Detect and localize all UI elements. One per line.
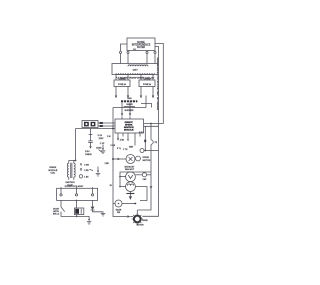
wire [144, 150, 158, 152]
wire A continues [138, 145, 152, 211]
svg-text:10: 10 [110, 185, 113, 187]
fuse F1 blob [144, 140, 146, 143]
arrow pin 4 [152, 96, 154, 99]
node [144, 150, 146, 152]
wire [92, 200, 94, 206]
node bus-riser [112, 128, 114, 130]
node [76, 216, 78, 218]
svg-text:3 1S: 3 1S [98, 135, 103, 137]
wire [113, 203, 115, 205]
svg-text:F2: F2 [155, 142, 158, 144]
wire [127, 75, 129, 81]
wire P3-2 down [152, 87, 154, 96]
burner coil W1 [124, 106, 135, 107]
control module U2 [115, 119, 144, 133]
wire L1 from U1 to right bus [144, 44, 164, 124]
wire inner bus down to motor [142, 126, 158, 216]
wire [61, 212, 77, 217]
wire [76, 215, 78, 217]
wire valve to D1 [121, 103, 123, 114]
wire valve to D2 [129, 103, 131, 114]
wire P2-1 down [115, 87, 117, 96]
transformer T1 [112, 64, 158, 80]
tick [99, 150, 103, 153]
svg-text:SW 2-3: SW 2-3 [53, 213, 59, 215]
diode D1 [121, 113, 123, 116]
node J1 [150, 123, 152, 125]
pin mark [127, 139, 129, 141]
terminal P1-3 [146, 51, 148, 53]
wire [120, 186, 126, 188]
wire U1 bottom lead 2 [127, 50, 129, 53]
wire [145, 96, 147, 108]
terminal P1-2 [127, 51, 129, 53]
wire P3-1 down [140, 87, 142, 96]
diode D4 [80, 164, 82, 167]
noise filter board U1 [127, 38, 155, 51]
arrow pin 1 [115, 96, 117, 99]
wire neutral bus [76, 128, 116, 130]
capacitor C1 [88, 129, 93, 149]
svg-text:DOOR LOCK ASSY: DOOR LOCK ASSY [65, 185, 84, 188]
wire [154, 54, 156, 64]
ground G2 [87, 219, 91, 224]
ground G1 [96, 145, 105, 154]
svg-text:MODULE: MODULE [48, 170, 58, 172]
node J2 [75, 160, 77, 162]
ground G4 [101, 213, 106, 216]
svg-text:FUSE 2A: FUSE 2A [118, 83, 127, 86]
wire U1 bottom lead 4 [154, 50, 156, 53]
wire U1 bottom lead 3 [146, 50, 148, 53]
terminal 3 [91, 187, 93, 196]
svg-text:CAP: CAP [142, 178, 147, 181]
diode D2 [129, 113, 131, 116]
fan motor M3 winding 2 [126, 182, 136, 192]
svg-text:120V: 120V [132, 70, 138, 72]
terminal circle [79, 175, 82, 178]
thermostat TH1 [151, 140, 158, 144]
svg-text:5 OR: 5 OR [111, 145, 116, 147]
arrow pin 2 [127, 96, 129, 99]
arrow pin 3 [140, 96, 142, 99]
svg-text:FILTER: FILTER [137, 46, 145, 49]
wire [121, 116, 123, 119]
node [119, 186, 121, 188]
wire [122, 133, 124, 137]
svg-text:DRIVE: DRIVE [143, 157, 150, 159]
svg-text:FUSE 2A: FUSE 2A [143, 83, 152, 86]
terminal 2 [75, 187, 77, 196]
svg-text:.1 UF: .1 UF [100, 143, 106, 145]
relay K1 [74, 208, 83, 215]
wire [129, 116, 131, 119]
wire [146, 54, 148, 64]
wire [135, 187, 147, 201]
svg-text:IGNITION: IGNITION [65, 182, 75, 184]
pin arrow [117, 138, 119, 140]
svg-text:MODULE: MODULE [124, 129, 134, 131]
node [76, 200, 78, 202]
wire [135, 174, 142, 176]
door switch box S4 [57, 188, 98, 200]
wire sense branch [144, 126, 146, 139]
wire [93, 210, 104, 213]
svg-text:BURNER: BURNER [125, 110, 134, 112]
wire branch A down [150, 124, 152, 140]
idler wire [122, 203, 136, 205]
tick mark [80, 168, 82, 171]
wire motor top [136, 210, 138, 214]
wire [152, 75, 154, 81]
wire [60, 200, 62, 207]
svg-text:CABLE: CABLE [85, 153, 92, 156]
svg-text:2 BK: 2 BK [120, 140, 125, 142]
svg-text:CHAS: CHAS [96, 146, 102, 149]
terminal P1-4 [154, 51, 156, 53]
terminal P1-1 [119, 51, 121, 53]
arrow [118, 158, 121, 161]
splice mark [100, 122, 103, 124]
node on riser [112, 158, 114, 160]
svg-text:MOTOR: MOTOR [143, 160, 151, 162]
svg-text:1 BK: 1 BK [84, 176, 89, 178]
svg-text:EXHAUST: EXHAUST [125, 166, 136, 169]
svg-text:8318084 REV. A LITHO IN U.S.: 8318084 REV. A LITHO IN U.S.A. PART NO. … [156, 58, 159, 111]
arrow mark [90, 169, 94, 170]
svg-text:2 BU: 2 BU [85, 151, 90, 153]
arrow on motor feed [127, 215, 130, 218]
svg-text:1 TH: 1 TH [123, 149, 128, 151]
wire left riser [113, 108, 127, 217]
wire [139, 133, 141, 137]
svg-text:SEN: SEN [129, 147, 134, 149]
svg-text:3 YL: 3 YL [117, 148, 122, 150]
wire [134, 133, 136, 146]
svg-text:4 GN: 4 GN [84, 165, 89, 167]
svg-text:1M BK: 1M BK [142, 220, 148, 222]
node [119, 176, 121, 178]
wire [76, 200, 78, 208]
wire to motor [113, 158, 126, 160]
splice mark [100, 125, 103, 127]
power plug P4 [82, 121, 98, 128]
capacitor C3 to ground [126, 191, 134, 200]
svg-text:GAS: GAS [127, 97, 132, 100]
gas valve V1 [121, 97, 137, 106]
wire [127, 133, 129, 140]
svg-text:1 W: 1 W [107, 136, 111, 138]
svg-text:SW: SW [117, 212, 120, 214]
node [134, 203, 136, 205]
diode D3 [91, 207, 95, 210]
fan motor M3 winding 1 [126, 172, 136, 182]
svg-text:COIL: COIL [50, 173, 56, 175]
drive motor M2 [126, 155, 151, 164]
wire burner bus [113, 107, 146, 109]
ignition transformer T2 [67, 161, 75, 180]
connector P2 [114, 79, 130, 87]
wire N1 from U1 to inner right bus [144, 46, 159, 126]
terminal 1 [60, 187, 62, 196]
spark riser wire [75, 129, 77, 161]
svg-text:FAN MOT: FAN MOT [125, 168, 135, 171]
arrow on wire A [150, 186, 153, 189]
wire to motor [130, 216, 133, 218]
module U2 bottom pins [117, 133, 119, 138]
wire [140, 75, 142, 81]
wire P2-2 down [127, 87, 129, 96]
connector P3 [139, 79, 155, 87]
run capacitor C2 [142, 173, 151, 182]
wire plug line 2 [98, 125, 115, 127]
wire [127, 54, 129, 64]
main motor M1 [132, 213, 145, 226]
wire [144, 142, 146, 150]
wire fan feed [120, 172, 151, 187]
wire U1 left lead [121, 44, 128, 51]
svg-text:2 RD: 2 RD [84, 170, 89, 172]
ground G3 [96, 167, 101, 177]
wire plug line 1 [98, 122, 115, 124]
sensor circle S2 [140, 149, 144, 153]
svg-text:115V: 115V [99, 138, 104, 140]
svg-text:MOTOR: MOTOR [137, 225, 145, 227]
wire valve branch [141, 104, 152, 108]
svg-text:2 BK: 2 BK [105, 163, 110, 165]
latch switch S5 [61, 207, 65, 212]
wire [120, 54, 122, 64]
wire [77, 216, 90, 219]
idler switch S3 [115, 200, 122, 214]
wire T1 to P2 [115, 75, 117, 81]
wire [120, 176, 126, 178]
svg-text:SPARK: SPARK [49, 166, 57, 169]
